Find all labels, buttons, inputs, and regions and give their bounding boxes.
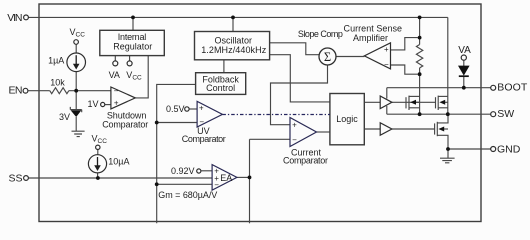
svg-text:VCC: VCC <box>92 133 108 145</box>
svg-text:+: + <box>384 45 389 54</box>
svg-text:1µA: 1µA <box>48 55 64 65</box>
svg-text:VIN: VIN <box>7 12 22 24</box>
svg-text:−: − <box>292 136 297 145</box>
svg-text:Σ: Σ <box>324 50 331 64</box>
svg-text:Control: Control <box>206 83 235 93</box>
svg-text:−: − <box>384 60 389 69</box>
svg-text:1.2MHz/440kHz: 1.2MHz/440kHz <box>201 45 267 55</box>
svg-text:Comparator: Comparator <box>283 156 328 166</box>
svg-text:Amplifier: Amplifier <box>353 33 388 43</box>
svg-text:Gm = 680µA/V: Gm = 680µA/V <box>158 190 217 200</box>
svg-text:+: + <box>292 121 297 130</box>
svg-text:VA: VA <box>458 45 471 56</box>
svg-text:0.5V: 0.5V <box>166 104 185 114</box>
svg-text:GND: GND <box>497 143 521 155</box>
svg-text:Comparator: Comparator <box>102 120 148 130</box>
svg-text:Oscillator: Oscillator <box>214 36 252 46</box>
svg-text:EA: EA <box>220 173 232 183</box>
svg-text:SW: SW <box>497 108 514 120</box>
svg-text:10µA: 10µA <box>108 156 129 166</box>
svg-text:−: − <box>214 180 219 189</box>
svg-text:Logic: Logic <box>336 114 358 124</box>
svg-text:1V: 1V <box>87 99 98 109</box>
svg-text:10k: 10k <box>50 77 65 87</box>
svg-text:0.92V: 0.92V <box>171 166 195 176</box>
svg-text:−: − <box>199 117 204 126</box>
svg-text:SS: SS <box>8 173 22 185</box>
svg-text:VA: VA <box>109 70 120 80</box>
svg-text:Slope Comp: Slope Comp <box>298 29 343 39</box>
svg-text:Regulator: Regulator <box>113 42 152 52</box>
svg-text:+: + <box>114 98 119 107</box>
svg-text:VCC: VCC <box>126 70 142 82</box>
svg-text:+: + <box>199 103 204 112</box>
svg-text:−: − <box>114 87 119 96</box>
svg-text:BOOT: BOOT <box>497 81 528 93</box>
svg-text:EN: EN <box>9 85 23 97</box>
svg-text:3V: 3V <box>59 112 70 122</box>
svg-text:Comparator: Comparator <box>182 134 226 144</box>
svg-text:Current Sense: Current Sense <box>344 23 403 33</box>
svg-text:VCC: VCC <box>70 27 86 39</box>
